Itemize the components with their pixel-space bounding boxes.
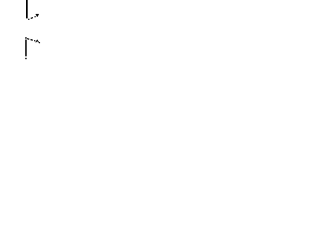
node C: top dot of lower staff: [25, 37, 27, 39]
background: [0, 0, 60, 60]
marker M2: caret (hollow up triangle): [36, 40, 38, 42]
wire: second dash of lower diagonal: [31, 39, 33, 42]
wire: slanted dash of upper diagonal: [31, 17, 33, 20]
node E: dash dot of lower diagonal: [34, 40, 35, 41]
wire: first dash of lower diagonal: [27, 38, 29, 41]
node F: trailing dot of lower diagonal: [39, 42, 40, 43]
wire: upper vertical staff line: [26, 0, 28, 18]
marker M1: filled down-pointing triangle: [36, 14, 39, 17]
wire: lower vertical staff line: [25, 40, 27, 57]
node D: bottom detached dot of lower staff: [25, 58, 26, 60]
node A: first dash dot of upper diagonal: [28, 19, 29, 20]
node B: second dash dot of upper diagonal: [35, 16, 36, 17]
